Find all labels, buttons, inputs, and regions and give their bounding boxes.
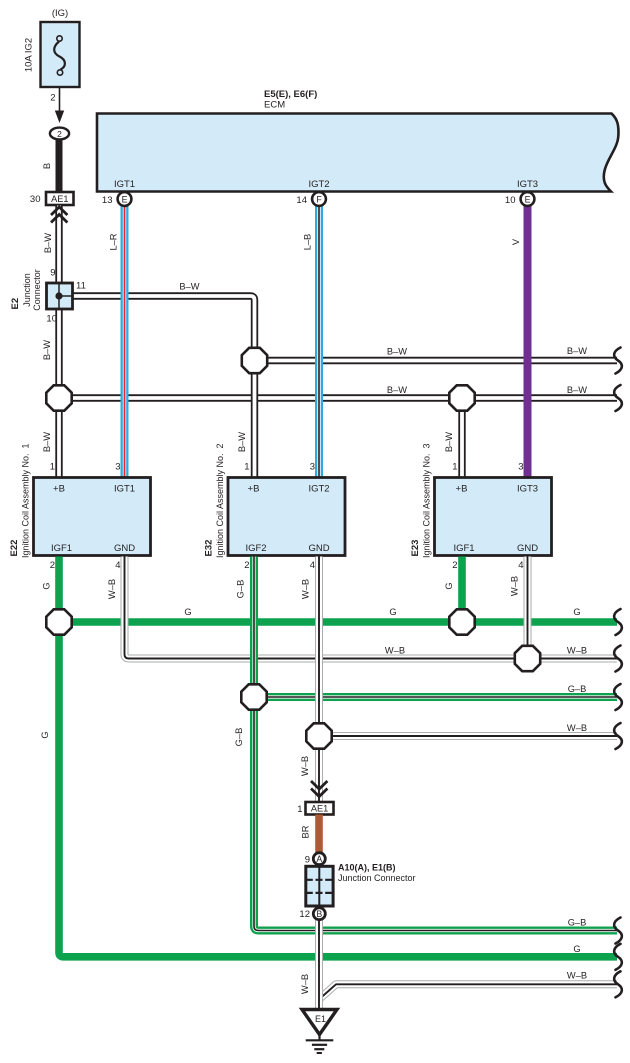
junction octagon O5: [449, 609, 474, 634]
svg-text:L–B: L–B: [303, 234, 313, 251]
svg-text:G–B: G–B: [568, 918, 587, 928]
svg-text:9: 9: [305, 854, 310, 865]
ECM pin 13 (E): [118, 192, 132, 206]
svg-text:G–B: G–B: [568, 684, 587, 694]
ignition coil assembly E32: [228, 478, 345, 556]
wire break right end G bus: [614, 609, 622, 635]
svg-text:4: 4: [115, 560, 120, 571]
svg-text:30: 30: [30, 194, 41, 205]
wire G coil1 IGF1 down, corner, to right edge: [59, 557, 617, 957]
svg-text:G: G: [40, 731, 50, 738]
svg-text:2: 2: [50, 93, 55, 104]
svg-text:G: G: [42, 582, 52, 589]
wire B-W junction O3 down to coil3 +B: [458, 398, 465, 477]
svg-text:Ignition Coil Assembly No. 1: Ignition Coil Assembly No. 1: [21, 443, 31, 558]
junction octagon O7: [241, 684, 266, 709]
junction octagon O6: [515, 646, 540, 671]
svg-text:W–B: W–B: [567, 971, 587, 981]
wire break right end bus1: [614, 348, 622, 374]
svg-text:3: 3: [310, 462, 315, 473]
svg-text:G: G: [389, 607, 396, 617]
wire break right end W-B busA: [614, 646, 622, 672]
wire B-W bus2 from junction O1 to right edge: [59, 394, 617, 401]
svg-text:G: G: [444, 582, 454, 589]
svg-text:W–B: W–B: [301, 579, 311, 599]
connector 1 AE1: [306, 802, 334, 815]
svg-text:+B: +B: [53, 484, 65, 495]
wire break right end bus2: [614, 385, 622, 411]
svg-text:Junction Connector: Junction Connector: [338, 873, 416, 883]
svg-text:GND: GND: [517, 543, 538, 554]
svg-text:W–B: W–B: [510, 576, 520, 596]
svg-text:13: 13: [102, 195, 113, 206]
svg-text:IGT1: IGT1: [114, 484, 135, 495]
connector 30 AE1: [46, 192, 74, 205]
svg-text:3: 3: [518, 462, 523, 473]
node ellipse 2: [50, 128, 69, 140]
svg-text:E32: E32: [204, 540, 215, 557]
svg-text:W–B: W–B: [567, 723, 587, 733]
svg-text:B–W: B–W: [237, 432, 247, 452]
fuse 10A IG2: [41, 22, 80, 87]
wire BR brown AE1 to junction pin 9: [315, 815, 323, 854]
wire break right end W-B busB: [614, 723, 622, 749]
svg-text:14: 14: [296, 195, 307, 206]
svg-text:1: 1: [297, 804, 302, 815]
svg-text:E1: E1: [315, 1014, 326, 1024]
svg-text:Ignition Coil Assembly No. 2: Ignition Coil Assembly No. 2: [215, 443, 225, 558]
svg-text:4: 4: [310, 560, 315, 571]
wire B-W E2 pin11 right and down to coil2 +B: [73, 296, 255, 477]
wire B black fuse to AE1: [56, 139, 63, 192]
junction octagon O4: [46, 609, 71, 634]
chevron arrows up: [51, 207, 67, 215]
svg-text:BR: BR: [301, 825, 311, 838]
svg-text:IGF1: IGF1: [51, 543, 72, 554]
wire break right end G-B bus: [614, 684, 622, 710]
wire B-W E2 pin10 down to coil1 +B: [55, 309, 62, 477]
svg-text:2: 2: [57, 129, 62, 139]
junction connector A10(A), E1(B): [306, 866, 333, 906]
svg-text:W–B: W–B: [567, 646, 587, 656]
svg-text:W–B: W–B: [300, 974, 310, 994]
wire break right end G-B bottom: [614, 918, 622, 944]
svg-text:E5(E), E6(F): E5(E), E6(F): [264, 89, 317, 100]
svg-text:IGT1: IGT1: [114, 179, 135, 190]
wire W-B coil3 GND down to W-B bus: [524, 557, 532, 659]
svg-text:+B: +B: [456, 484, 468, 495]
wire fuse pin 2 with arrowhead: [59, 87, 61, 113]
junction octagon O8: [306, 723, 331, 748]
chevron arrows down: [311, 781, 327, 789]
wire L-R ECM pin13 to coil1 IGT1: [121, 205, 129, 477]
svg-text:10A IG2: 10A IG2: [24, 38, 35, 72]
svg-text:E22: E22: [9, 540, 20, 557]
svg-text:+B: +B: [248, 484, 260, 495]
svg-text:AE1: AE1: [51, 194, 68, 204]
junction pin 12 (B): [313, 908, 325, 920]
wire W-B bus junction O8 to right edge: [319, 732, 617, 740]
svg-text:B–W: B–W: [387, 347, 407, 357]
ECM pin 10 (E): [521, 192, 535, 206]
svg-text:Ignition Coil Assembly No. 3: Ignition Coil Assembly No. 3: [422, 443, 432, 558]
svg-text:12: 12: [299, 909, 310, 920]
wire B-W AE1 to E2 pin 9: [55, 206, 62, 284]
junction octagon O3: [449, 385, 474, 410]
svg-text:2: 2: [50, 560, 55, 571]
svg-text:(IG): (IG): [52, 8, 68, 19]
svg-text:B: B: [42, 163, 52, 169]
svg-text:IGT2: IGT2: [308, 179, 329, 190]
wire W-B bottom bus from right edge merging into ground wire: [321, 984, 618, 998]
junction octagon O2: [242, 348, 267, 373]
svg-text:V: V: [511, 238, 521, 245]
svg-text:G: G: [573, 944, 580, 954]
wire V ECM pin10 to coil3 IGT3: [524, 205, 532, 477]
svg-text:W–B: W–B: [385, 646, 405, 656]
wire W-B junction pin B to ground E1: [315, 920, 323, 1009]
svg-text:B–W: B–W: [43, 233, 53, 253]
svg-text:A: A: [316, 854, 322, 864]
ignition coil assembly E23: [435, 478, 552, 556]
svg-text:2: 2: [452, 560, 457, 571]
svg-text:IGT3: IGT3: [517, 179, 538, 190]
svg-text:B: B: [316, 909, 322, 919]
wire W-B coil2 GND down to AE1: [315, 557, 323, 803]
svg-text:G–B: G–B: [236, 580, 246, 599]
ECM E5(E), E6(F) box: [97, 114, 618, 192]
svg-text:B–W: B–W: [42, 432, 52, 452]
wire B-W bus1 from junction O2 to right edge: [255, 357, 618, 364]
svg-text:B–W: B–W: [444, 432, 454, 452]
svg-text:4: 4: [518, 560, 523, 571]
svg-text:IGT3: IGT3: [517, 484, 538, 495]
svg-text:B–W: B–W: [567, 385, 587, 395]
svg-text:9: 9: [50, 268, 55, 279]
fuse element symbol: [57, 36, 62, 41]
svg-text:B–W: B–W: [567, 346, 587, 356]
wire G coil3 IGF1 down to G bus: [458, 557, 466, 623]
svg-text:11: 11: [76, 281, 86, 292]
wire break right end W-B bottom: [614, 971, 622, 997]
svg-text:10: 10: [46, 314, 57, 325]
svg-text:IGF1: IGF1: [453, 543, 474, 554]
svg-text:W–B: W–B: [107, 579, 117, 599]
wire G-B coil2 IGF2 down, corner, to right edge: [254, 557, 617, 931]
svg-text:G: G: [573, 607, 580, 617]
svg-text:IGF2: IGF2: [245, 543, 266, 554]
wire G-B bus junction O7 to right edge: [254, 693, 617, 701]
svg-text:ECM: ECM: [264, 100, 285, 111]
svg-text:GND: GND: [114, 543, 135, 554]
wire G bus coil1 to coil3 to right edge: [59, 618, 617, 626]
svg-text:E23: E23: [410, 540, 421, 557]
svg-text:Connector: Connector: [32, 269, 42, 311]
svg-text:10: 10: [505, 195, 516, 206]
svg-text:AE1: AE1: [311, 804, 328, 814]
svg-text:1: 1: [244, 462, 249, 473]
junction pin 9 (A): [313, 853, 325, 865]
wire W-B coil1 GND down, corner, bus to right edge: [125, 557, 618, 659]
ignition coil assembly E22: [34, 478, 151, 556]
svg-text:L–R: L–R: [109, 233, 119, 250]
svg-text:B–W: B–W: [179, 282, 199, 292]
wire break right end G bottom: [614, 944, 622, 970]
svg-text:E2: E2: [10, 298, 21, 310]
svg-text:B–W: B–W: [42, 340, 52, 360]
svg-text:IGT2: IGT2: [308, 484, 329, 495]
svg-text:1: 1: [452, 462, 457, 473]
svg-text:G–B: G–B: [234, 728, 244, 747]
svg-text:1: 1: [50, 462, 55, 473]
svg-text:3: 3: [115, 462, 120, 473]
svg-text:G: G: [184, 607, 191, 617]
svg-text:Junction: Junction: [22, 273, 32, 307]
svg-text:W–B: W–B: [300, 756, 310, 776]
svg-text:E: E: [525, 194, 531, 204]
junction connector E2: [47, 283, 73, 309]
ECM pin 14 (F): [312, 192, 326, 206]
svg-text:B–W: B–W: [387, 385, 407, 395]
junction octagon O1: [46, 385, 71, 410]
svg-text:A10(A), E1(B): A10(A), E1(B): [338, 863, 396, 873]
svg-text:F: F: [316, 194, 322, 204]
ground E1: [302, 1010, 337, 1035]
svg-text:E: E: [122, 194, 128, 204]
wire L-B ECM pin14 to coil2 IGT2: [315, 205, 323, 477]
svg-text:GND: GND: [308, 543, 329, 554]
svg-text:2: 2: [244, 560, 249, 571]
